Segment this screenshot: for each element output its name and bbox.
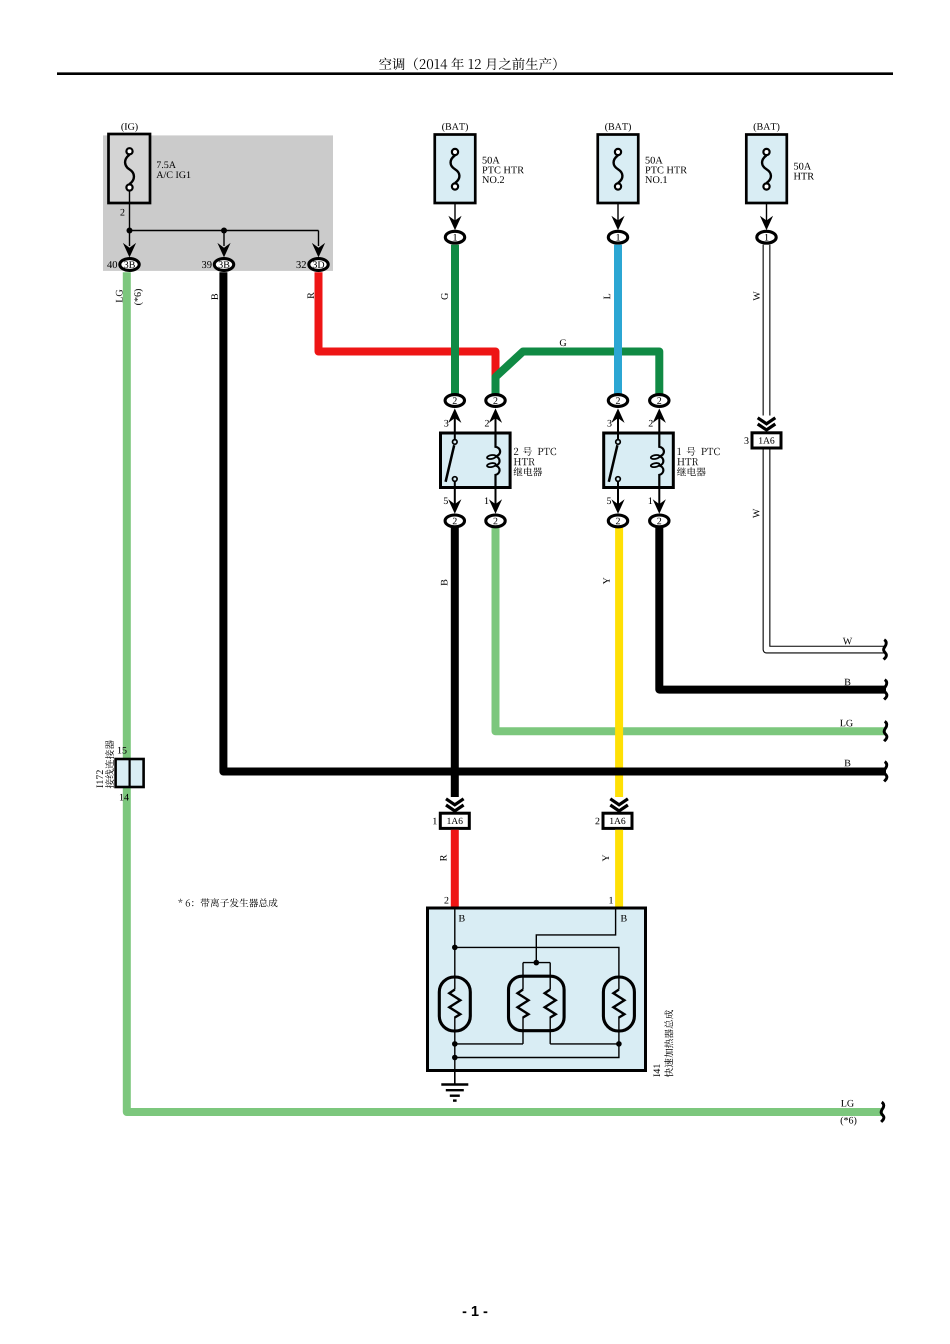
relay 2 PTC HTR box [441, 433, 511, 488]
wire L from fuse NO.1 to relay 1 pin 3 [614, 245, 622, 394]
chevron Y into 1A6 [610, 799, 628, 811]
wire B from relay 1 pin 1 to right [659, 528, 886, 690]
wire LG from relay 2 pin 1 to right [496, 528, 887, 732]
heater element middle [509, 976, 565, 1030]
junction dot B [221, 228, 227, 234]
pin 2 of fuse A/C IG1 [120, 209, 124, 216]
page number [463, 1306, 488, 1316]
wire R from 1A6 to heater pin 2 [451, 830, 459, 908]
relay 2 switch contact [454, 433, 456, 440]
quick heater assembly I41 box [428, 908, 646, 1071]
wire W from fuse HTR to 1A6 [763, 245, 771, 416]
relay 2 pin 2 [495, 414, 497, 433]
junction block J/B (gray area) [103, 135, 333, 271]
connector 3 1A6 (W) [752, 433, 781, 448]
fuse 50A HTR [746, 135, 787, 204]
wire G link between relay coils [496, 352, 660, 394]
relay 2 coil [496, 433, 501, 488]
relay 1 pin 2 [658, 414, 660, 433]
chevron B into 1A6 [446, 799, 464, 811]
relay 1 pin 1 [658, 488, 660, 509]
wire fuse HTR to connector 1 [766, 203, 768, 222]
fuse 50A PTC HTR NO.2 [435, 135, 476, 204]
connector 2 below relay 1 pin 5 [608, 515, 627, 527]
relay 1 coil [659, 433, 664, 488]
relay 1 pin 3 [617, 414, 619, 433]
heater internal node B right [621, 915, 627, 922]
connector 2 above relay 1 pin 2 [650, 395, 669, 407]
wire Y from relay 1 pin 5 down [615, 528, 623, 797]
wire B from relay 2 pin 5 down [451, 528, 459, 797]
relay 1 switch contact [617, 433, 619, 440]
drop wire to 32 [318, 231, 320, 247]
I172 pin 14 [120, 794, 129, 801]
wire fuse NO.1 to connector 1 [617, 203, 619, 222]
connector 1 of fuse HTR [757, 231, 776, 243]
wire from fuse to bus [129, 191, 131, 231]
heater pin 1 label [609, 897, 613, 904]
drop wire to 40 [129, 231, 131, 247]
junction dot heater 5 [616, 1041, 622, 1047]
heater internal node B left [459, 915, 465, 922]
relay 2 pin 3 [454, 414, 456, 433]
junction dot heater 4 [452, 1055, 458, 1061]
connector 2 above relay 1 pin 3 [608, 395, 627, 407]
connector 2 below relay 2 pin 1 [486, 515, 505, 527]
connector 2 below relay 2 pin 5 [445, 515, 464, 527]
connector 39 3B [214, 259, 233, 271]
note *6 [178, 898, 277, 907]
ground [454, 1071, 456, 1085]
relay 1 PTC HTR box [604, 433, 674, 488]
relay 2 pin 5 [454, 488, 456, 509]
connector 2 above relay 2 pin 2 [486, 395, 505, 407]
wire Y from 1A6 to heater pin 1 [615, 830, 623, 908]
wire fuse NO.2 to connector 1 [454, 203, 456, 222]
junction dot heater 1 [452, 945, 458, 951]
heater element left [439, 977, 470, 1031]
wire LG from 40 3B to bottom right [127, 272, 883, 1112]
drop wire to 39 [223, 231, 225, 247]
connector 32 3D [309, 259, 328, 271]
header rule [57, 72, 893, 75]
junction dot A [127, 228, 133, 234]
I41 label [653, 1064, 660, 1076]
junction dot heater 3 [452, 1041, 458, 1047]
wire G from fuse NO.2 to relay 2 pin 3 [451, 245, 459, 394]
relay 1 label [678, 448, 681, 455]
junction dot heater 2 [534, 960, 540, 966]
relay 1 pin 5 [617, 488, 619, 509]
bus wire to connectors 40/39/32 [130, 230, 319, 232]
fuse 50A PTC HTR NO.1 [598, 135, 639, 204]
junction connector I172 [116, 759, 144, 787]
connector 1 of fuse NO.1 [608, 231, 627, 243]
heater internal wiring [454, 908, 456, 990]
title 空调(2014年12月之前生产) [379, 58, 556, 71]
wire B from 39 3B to right [223, 272, 886, 771]
connector 1 1A6 (B/R) [440, 813, 469, 828]
fuse A/C IG1 7.5A [109, 134, 151, 203]
relay 2 pin 1 [495, 488, 497, 509]
connector 40 3B [120, 259, 139, 271]
connector 2 above relay 2 pin 3 [445, 395, 464, 407]
connector 2 below relay 1 pin 1 [650, 515, 669, 527]
relay 2 label [514, 448, 518, 455]
heater element right [603, 977, 634, 1031]
chevron W into 1A6 [758, 418, 776, 430]
heater pin 2 label [444, 897, 448, 904]
connector 2 1A6 (Y) [603, 813, 632, 828]
wire R from 32 3D to relay coils [319, 272, 496, 378]
wire W from 1A6 to right [767, 448, 886, 650]
I172 label [96, 770, 103, 787]
connector 1 of fuse NO.2 [445, 231, 464, 243]
I172 pin 15 [118, 747, 127, 754]
